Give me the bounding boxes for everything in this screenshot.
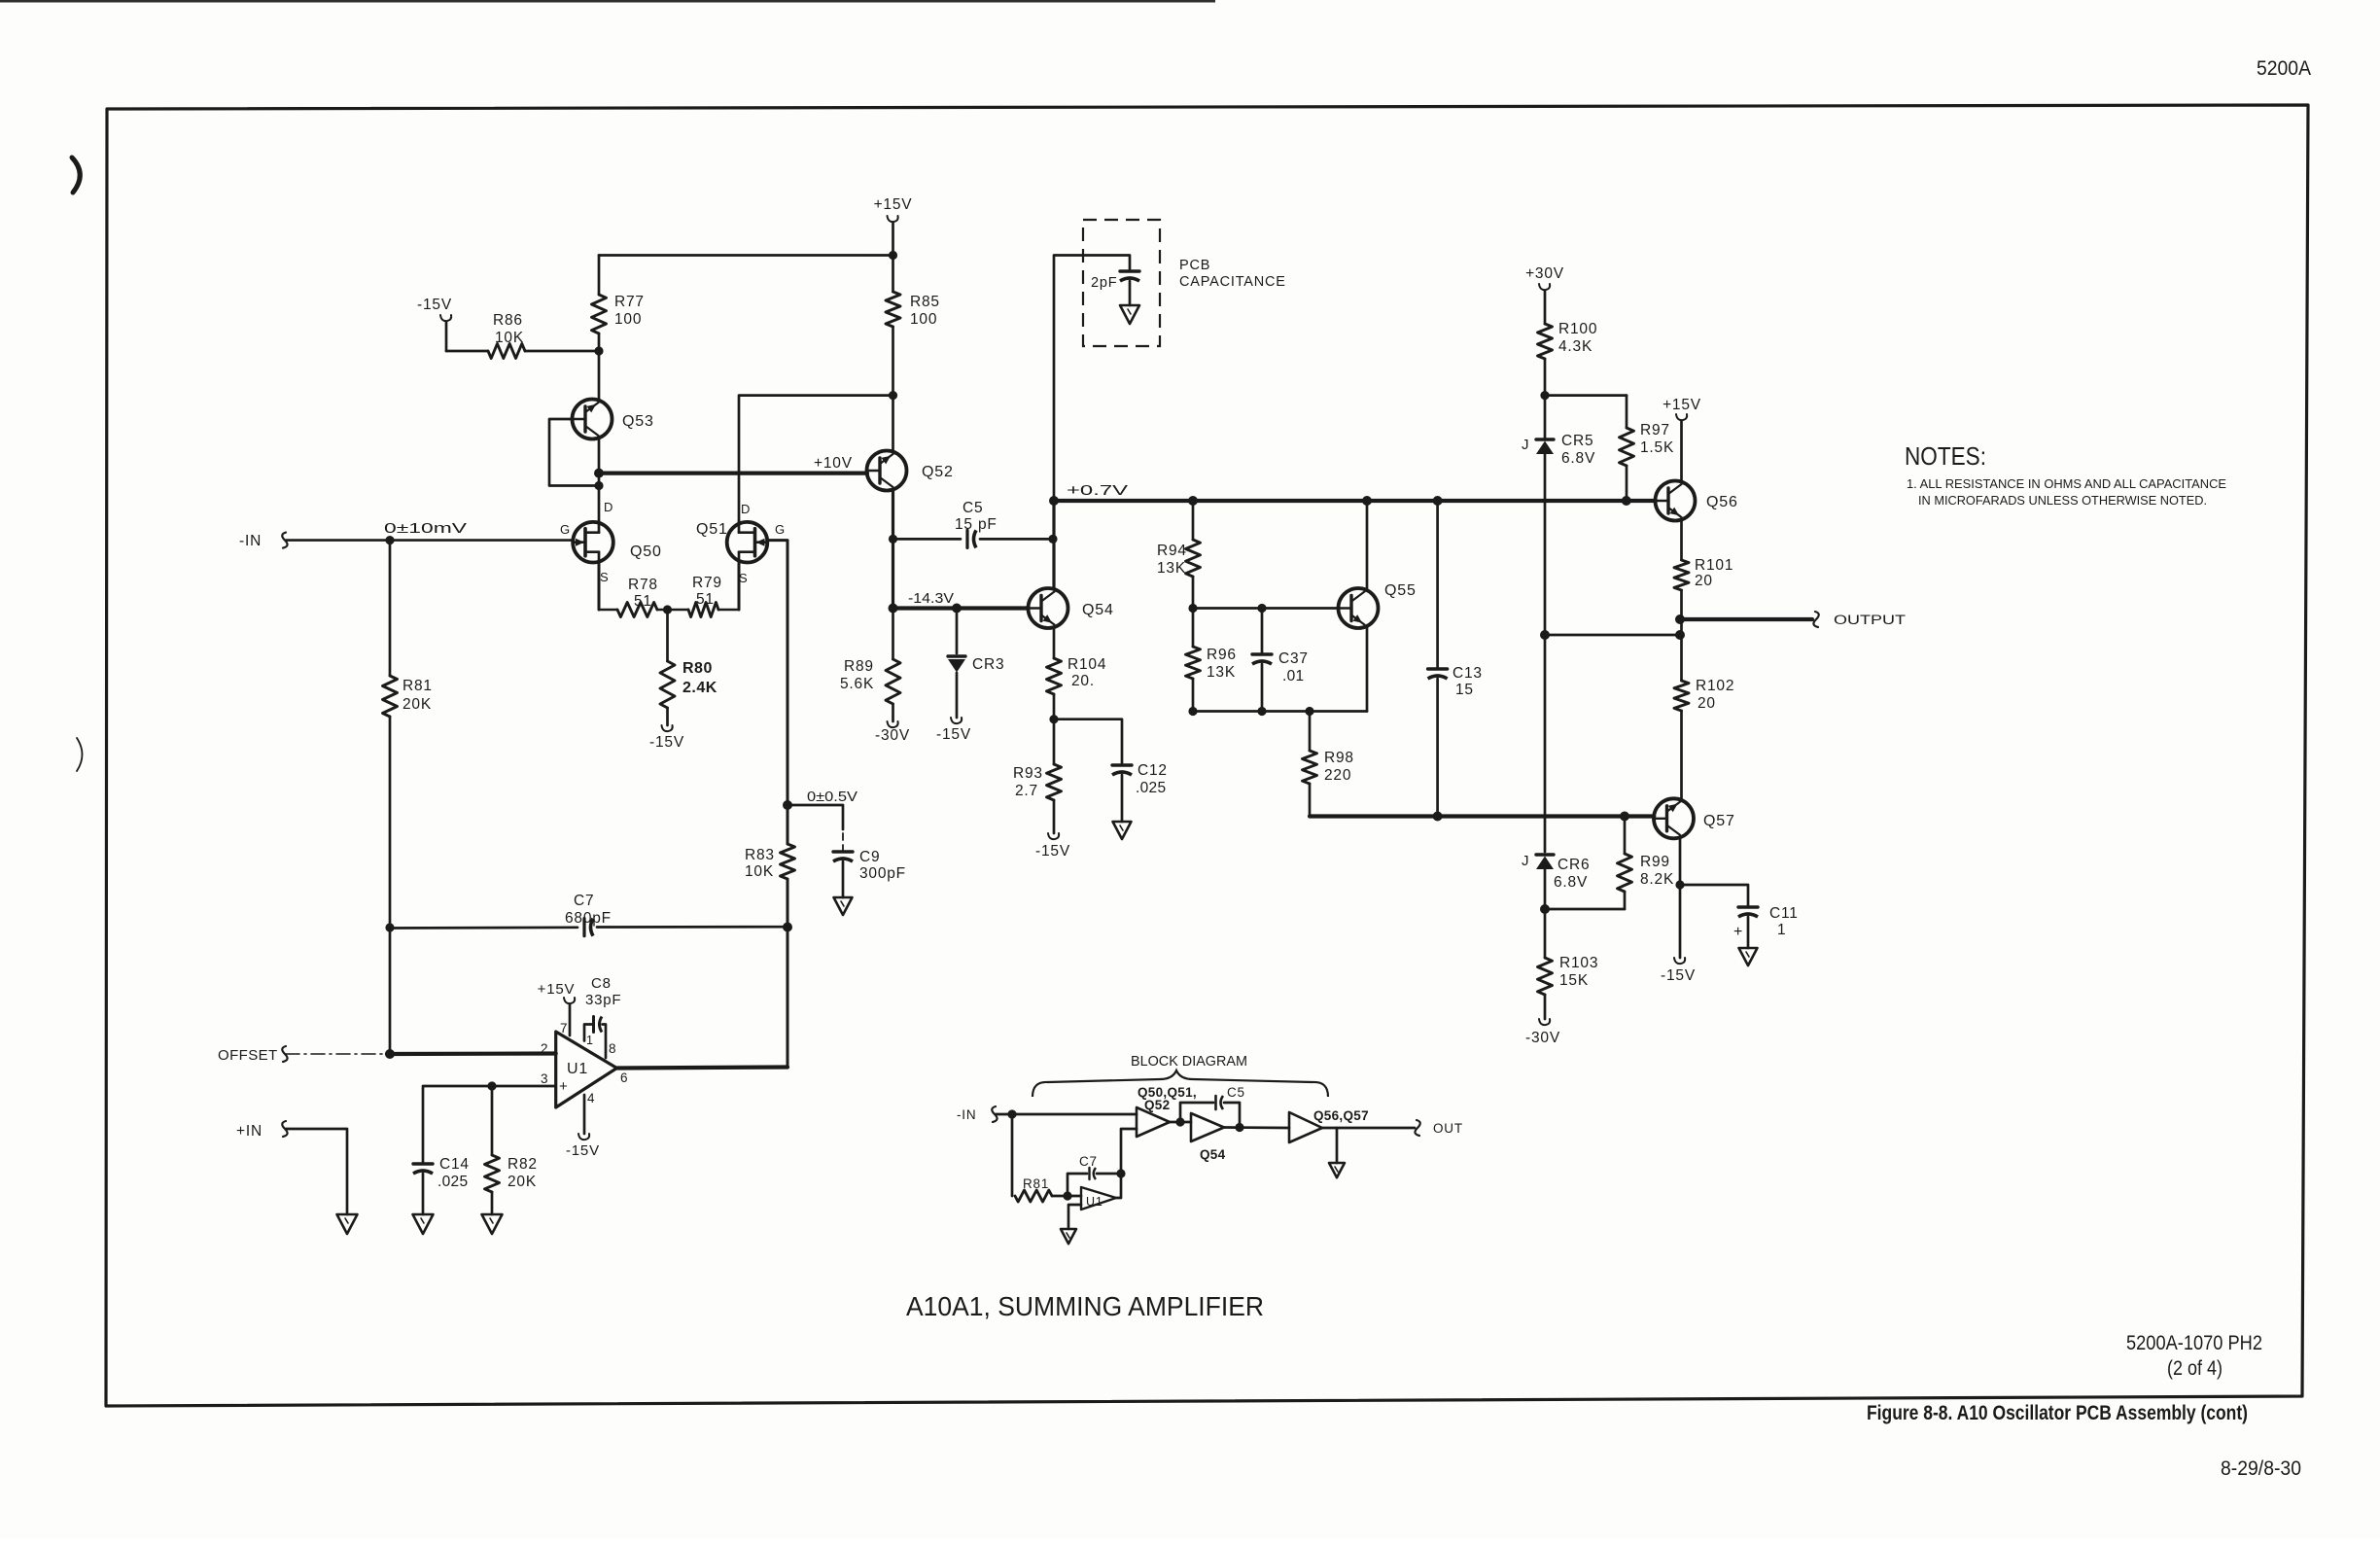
wire Q51 drain to top node	[739, 396, 893, 522]
svg-text:+: +	[1733, 924, 1743, 940]
transistor Q52	[867, 451, 907, 491]
diode CR3	[956, 609, 959, 654]
svg-text:2pF: 2pF	[1091, 275, 1117, 291]
svg-text:R99: R99	[1640, 854, 1670, 870]
wire Q51 source down	[738, 563, 741, 610]
svg-text:100: 100	[910, 311, 937, 328]
wire R85 to Q52 collector node	[892, 327, 894, 451]
svg-text:Q52: Q52	[1144, 1098, 1170, 1112]
svg-text:7: 7	[560, 1021, 568, 1035]
svg-text:-15V: -15V	[1661, 967, 1696, 984]
wire +IN	[286, 1129, 347, 1214]
svg-text:OUT: OUT	[1433, 1121, 1463, 1136]
wire Q50 source down	[598, 563, 601, 610]
wire to C9	[787, 805, 843, 829]
block diagram brace	[1032, 1070, 1328, 1097]
svg-text:1: 1	[1777, 922, 1786, 938]
resistor R77	[592, 295, 607, 333]
resistor R85	[886, 292, 900, 327]
svg-text:+: +	[559, 1078, 569, 1095]
svg-text:10K: 10K	[745, 863, 774, 880]
op-amp U1	[556, 1032, 617, 1107]
svg-text:4.3K: 4.3K	[1558, 338, 1592, 355]
svg-text:+15V: +15V	[1662, 397, 1701, 413]
svg-text:0±0.5V: 0±0.5V	[807, 790, 857, 805]
wire OFFSET to U1 pin2	[387, 1051, 556, 1056]
svg-text:R101: R101	[1695, 557, 1733, 574]
power terminal -15V (R80)	[666, 708, 669, 725]
svg-text:R104: R104	[1067, 656, 1106, 673]
svg-text:.025: .025	[437, 1174, 468, 1190]
svg-text:2: 2	[541, 1041, 548, 1056]
capacitor C5 wire right	[980, 538, 1053, 541]
transistor Q53	[573, 400, 612, 439]
resistor R85 branch wire	[892, 256, 894, 293]
svg-text:1: 1	[586, 1034, 594, 1047]
svg-text:CAPACITANCE: CAPACITANCE	[1179, 274, 1286, 290]
capacitor C13 wire top	[1436, 501, 1439, 668]
svg-text:220: 220	[1324, 767, 1351, 784]
wire -IN to Q50 gate	[286, 539, 573, 542]
svg-text:680pF: 680pF	[565, 910, 612, 927]
svg-text:Q56: Q56	[1706, 494, 1738, 510]
wire R98 to Q57 base bus	[1309, 784, 1312, 817]
resistor R81	[389, 541, 392, 676]
svg-text:33pF: 33pF	[585, 992, 621, 1008]
svg-text:-15V: -15V	[1035, 843, 1070, 860]
wire CR6 node to R99	[1545, 908, 1625, 911]
wire U1 output	[617, 1068, 788, 1069]
wire Q51 gate to feedback column	[767, 541, 787, 805]
registration paren mark mid-left	[77, 738, 83, 771]
svg-text:IN MICROFARADS UNLESS OTHERWIS: IN MICROFARADS UNLESS OTHERWISE NOTED.	[1918, 493, 2207, 508]
wire C11 to ground	[1747, 917, 1750, 948]
capacitor C5 wire left	[893, 538, 962, 541]
svg-text:S: S	[600, 570, 609, 584]
wire OFFSET dash-dot	[286, 1053, 387, 1055]
svg-text:Q50: Q50	[630, 544, 662, 560]
svg-text:-IN: -IN	[957, 1107, 976, 1122]
jfet Q51	[727, 522, 768, 563]
block amp Q54	[1191, 1113, 1224, 1141]
net +0.7V bus	[1054, 499, 1656, 503]
resistor R94	[1192, 501, 1195, 540]
resistor R96	[1186, 647, 1201, 679]
svg-text:100: 100	[614, 311, 642, 328]
svg-text:R79: R79	[692, 575, 722, 591]
block amp Q56 Q57	[1289, 1112, 1322, 1142]
ground (block out)	[1329, 1163, 1345, 1177]
block ground stub	[1336, 1128, 1339, 1163]
capacitor C8	[592, 1017, 595, 1033]
transistor Q54	[1029, 588, 1068, 628]
ground (C11)	[1739, 948, 1758, 965]
svg-text:8.2K: 8.2K	[1640, 871, 1674, 888]
wire Q55 base bus	[1193, 607, 1339, 610]
svg-text:CR6: CR6	[1557, 857, 1590, 873]
wire R101 to output node	[1680, 590, 1683, 681]
wire C12 to ground	[1121, 775, 1124, 822]
resistor R93	[1047, 764, 1062, 800]
wire Q53 emitter down	[598, 438, 601, 522]
svg-text:R102: R102	[1696, 678, 1734, 694]
svg-text:R81: R81	[402, 678, 433, 694]
power terminal -30V (R103)	[1544, 995, 1547, 1019]
svg-text:C14: C14	[439, 1156, 470, 1173]
capacitor C12	[1112, 763, 1132, 766]
svg-text:Q57: Q57	[1703, 813, 1735, 829]
scan edge artifact top	[0, 0, 1215, 3]
resistor R86	[488, 344, 525, 359]
svg-text:Figure 8-8. A10 Oscillator PCB: Figure 8-8. A10 Oscillator PCB Assembly …	[1867, 1402, 2248, 1424]
capacitor C9	[833, 850, 853, 853]
capacitor C11	[1738, 905, 1758, 908]
svg-text:1. ALL RESISTANCE IN OHMS AND: 1. ALL RESISTANCE IN OHMS AND ALL CAPACI…	[1907, 476, 2226, 491]
wire top bus R77 to R85	[599, 254, 893, 257]
capacitor C13 wire bottom	[1436, 679, 1439, 817]
wire R86 left	[446, 350, 488, 353]
power terminal -15V (U1 pin4)	[583, 1095, 586, 1134]
capacitor C8 loop	[584, 1025, 592, 1041]
svg-text:C12: C12	[1137, 762, 1168, 779]
wire Q54 collector	[1052, 501, 1055, 589]
block wire amp1 to amp2	[1170, 1121, 1191, 1124]
wire Q55 emitter bottom bus	[1193, 710, 1367, 713]
svg-text:300pF: 300pF	[859, 865, 906, 882]
svg-text:-14.3V: -14.3V	[908, 591, 954, 607]
svg-text:OUTPUT: OUTPUT	[1834, 613, 1906, 627]
svg-text:Q54: Q54	[1082, 602, 1114, 618]
transistor Q56	[1656, 481, 1696, 521]
svg-text:15 pF: 15 pF	[955, 516, 997, 533]
wire R82 to ground	[491, 1192, 494, 1214]
svg-text:+IN: +IN	[236, 1123, 262, 1140]
capacitor C7 wire right	[597, 926, 787, 929]
svg-text:8-29/8-30: 8-29/8-30	[2221, 1457, 2301, 1480]
block wire U1 plus input	[1068, 1205, 1081, 1229]
resistor R83	[787, 805, 789, 844]
svg-text:5200A-1070 PH2: 5200A-1070 PH2	[2126, 1332, 2262, 1354]
svg-text:2.7: 2.7	[1015, 783, 1038, 799]
svg-text:Q54: Q54	[1200, 1147, 1226, 1162]
svg-text:-15V: -15V	[417, 297, 452, 313]
resistor R98	[1309, 712, 1312, 752]
power terminal -15V (CR3)	[956, 673, 959, 718]
svg-text:51: 51	[634, 593, 652, 610]
wire CR5/CR6 node to output node	[1545, 634, 1680, 637]
wire CR6 to R103	[1544, 869, 1547, 958]
transistor Q55	[1339, 588, 1379, 628]
ground (block U1)	[1061, 1229, 1076, 1244]
capacitor C5	[965, 530, 968, 547]
svg-text:J: J	[1522, 437, 1529, 453]
svg-text:C13: C13	[1452, 665, 1483, 682]
resistor R99	[1624, 817, 1627, 855]
wire R77 branch	[598, 256, 601, 296]
resistor R82	[491, 1086, 494, 1155]
svg-text:R98: R98	[1324, 750, 1354, 766]
svg-text:R81: R81	[1023, 1176, 1049, 1191]
svg-text:Q53: Q53	[622, 413, 654, 430]
wire U1 pin7	[569, 1004, 572, 1035]
wire R99 bottom	[1624, 892, 1627, 909]
wire Q56 collector	[1680, 421, 1683, 481]
power terminal -15V (R93)	[1053, 800, 1056, 833]
wire R81 down to offset node	[389, 717, 392, 1054]
svg-text:R100: R100	[1558, 321, 1597, 337]
wire CR5 to output-node tie	[1544, 454, 1547, 852]
svg-text:2.4K: 2.4K	[682, 680, 717, 696]
resistor R79	[688, 603, 718, 617]
svg-text:+15V: +15V	[538, 981, 576, 998]
svg-text:20K: 20K	[507, 1174, 537, 1190]
wire R86 to R77 node	[525, 350, 599, 353]
wire pcb cap to ground	[1129, 281, 1132, 305]
svg-text:D: D	[604, 500, 613, 514]
block amp Q50 Q51 Q52	[1137, 1107, 1170, 1137]
svg-text:13K: 13K	[1207, 664, 1236, 681]
svg-text:+30V: +30V	[1525, 265, 1564, 282]
svg-text:R83: R83	[745, 847, 775, 863]
svg-text:6.8V: 6.8V	[1561, 450, 1595, 467]
capacitor 2pF (pcb)	[1120, 269, 1139, 272]
svg-text:15K: 15K	[1559, 972, 1589, 989]
resistor R103	[1538, 958, 1553, 995]
ground (pcb cap)	[1120, 305, 1139, 324]
capacitor C7 wire left	[390, 926, 577, 929]
svg-text:-30V: -30V	[1525, 1030, 1560, 1046]
ground (+IN)	[337, 1214, 358, 1234]
block wire amp2 to amp3	[1224, 1126, 1289, 1129]
border frame	[106, 105, 2308, 1406]
ground (C12)	[1113, 822, 1132, 839]
wire PCB capacitance column	[1054, 256, 1130, 502]
wire R94 to Q55 base node	[1192, 577, 1195, 647]
net Q57 base bus	[1310, 814, 1654, 818]
svg-text:0±10mV: 0±10mV	[384, 521, 468, 537]
svg-text:10K: 10K	[495, 330, 524, 346]
resistor R97	[1626, 396, 1628, 428]
capacitor C37	[1252, 652, 1272, 655]
wire U1 pin3	[490, 1085, 556, 1088]
svg-text:+15V: +15V	[874, 196, 913, 213]
svg-text:6.8V: 6.8V	[1554, 874, 1588, 891]
net +10V bus	[599, 472, 867, 475]
registration paren mark top-left	[72, 158, 80, 193]
svg-text:20: 20	[1697, 695, 1716, 712]
svg-text:G: G	[560, 522, 571, 537]
svg-text:CR5: CR5	[1561, 433, 1593, 449]
svg-text:15: 15	[1455, 682, 1474, 698]
svg-text:R94: R94	[1157, 543, 1187, 559]
svg-text:(2 of 4): (2 of 4)	[2167, 1357, 2222, 1380]
capacitor C37 wire	[1261, 609, 1264, 654]
svg-text:D: D	[741, 502, 751, 516]
jfet Q50	[573, 522, 613, 563]
power terminal -30V (R89)	[892, 704, 894, 721]
svg-text:A10A1, SUMMING AMPLIFIER: A10A1, SUMMING AMPLIFIER	[906, 1291, 1264, 1321]
wire R77 to Q53	[598, 333, 601, 401]
svg-text:R89: R89	[844, 658, 874, 675]
resistor R101	[1674, 560, 1689, 590]
svg-text:R85: R85	[910, 294, 940, 310]
wire R97 to +0.7V bus	[1626, 466, 1628, 501]
wire pin3 to C14	[423, 1086, 492, 1163]
svg-text:13K: 13K	[1157, 560, 1186, 577]
resistor R80	[666, 610, 669, 661]
svg-text:C7: C7	[574, 893, 594, 909]
svg-text:5.6K: 5.6K	[840, 676, 874, 692]
svg-text:C37: C37	[1278, 650, 1309, 667]
pcb capacitance box (dashed)	[1083, 220, 1160, 346]
power terminal -15V (Q57)	[1674, 958, 1685, 964]
wire Q55 emitter	[1366, 628, 1369, 712]
ground (R82)	[482, 1214, 503, 1234]
ground (C14)	[413, 1214, 434, 1234]
svg-text:R77: R77	[614, 294, 645, 310]
svg-text:Q55: Q55	[1384, 582, 1417, 599]
svg-text:U1: U1	[1086, 1195, 1103, 1209]
resistor R102	[1674, 681, 1689, 711]
wire to C12	[1054, 719, 1122, 764]
svg-text:-30V: -30V	[875, 727, 910, 744]
svg-text:R96: R96	[1207, 647, 1237, 663]
svg-text:+10V: +10V	[814, 455, 853, 472]
resistor R100	[1538, 324, 1553, 359]
svg-text:U1: U1	[567, 1061, 588, 1077]
svg-text:51: 51	[696, 591, 715, 608]
wire to R97	[1545, 394, 1627, 397]
block resistor R81	[1015, 1190, 1052, 1202]
svg-text:R93: R93	[1013, 765, 1043, 782]
wire Q57 emitter	[1679, 838, 1682, 959]
svg-text:.025: .025	[1136, 780, 1166, 796]
svg-text:NOTES:: NOTES:	[1905, 441, 1986, 471]
svg-text:C8: C8	[591, 975, 612, 992]
wire R83 to op-amp output node	[787, 879, 789, 1067]
svg-text:3: 3	[541, 1071, 548, 1086]
capacitor C7	[582, 919, 585, 936]
svg-text:J: J	[1522, 853, 1529, 869]
svg-text:-15V: -15V	[649, 734, 684, 751]
capacitor C13	[1428, 667, 1448, 670]
transistor Q57	[1654, 798, 1694, 838]
svg-text:R80: R80	[682, 660, 713, 677]
svg-text:20K: 20K	[402, 696, 432, 713]
svg-text:R97: R97	[1640, 422, 1670, 439]
block amp U1	[1081, 1187, 1116, 1210]
svg-text:G: G	[775, 522, 786, 537]
svg-text:C7: C7	[1079, 1154, 1098, 1169]
wire R100 to CR5 node	[1544, 359, 1547, 438]
svg-text:.01: .01	[1282, 668, 1304, 684]
wire C9 to ground	[842, 861, 845, 897]
wire Q52 emitter down	[892, 490, 894, 609]
wire Q55 collector	[1366, 501, 1369, 589]
svg-text:R86: R86	[493, 312, 523, 329]
block wire to R81	[1011, 1114, 1014, 1196]
svg-text:8: 8	[609, 1041, 616, 1056]
svg-text:Q52: Q52	[922, 464, 954, 480]
svg-text:-15V: -15V	[566, 1142, 600, 1159]
block output terminal OUT	[1415, 1120, 1419, 1136]
svg-text:Q51: Q51	[696, 521, 728, 538]
svg-text:R82: R82	[507, 1156, 538, 1173]
net -14.3V bus	[893, 606, 1029, 610]
block wire OUT	[1322, 1127, 1415, 1130]
wire Q54 emitter	[1053, 628, 1056, 659]
wire Q57 emitter to C11	[1680, 885, 1748, 906]
ground (C9)	[834, 897, 853, 915]
output terminal OUTPUT	[1680, 617, 1812, 621]
svg-text:PCB: PCB	[1179, 258, 1210, 273]
svg-text:Q56,Q57: Q56,Q57	[1313, 1108, 1369, 1123]
resistor R104	[1047, 658, 1062, 694]
svg-text:OFFSET: OFFSET	[218, 1047, 278, 1064]
svg-text:C11: C11	[1769, 905, 1799, 922]
svg-text:6: 6	[620, 1070, 628, 1085]
block capacitor C7 loop	[1067, 1174, 1087, 1196]
svg-text:20: 20	[1695, 573, 1713, 589]
block wire R81 to U1	[1052, 1195, 1081, 1198]
wire Q56 emitter	[1680, 520, 1683, 561]
svg-text:-IN: -IN	[239, 533, 262, 549]
wire C14 to ground	[422, 1174, 425, 1214]
wire R104 to R93	[1053, 694, 1056, 764]
svg-text:20.: 20.	[1071, 673, 1095, 689]
svg-text:C5: C5	[1227, 1085, 1245, 1100]
svg-text:4: 4	[587, 1091, 595, 1105]
block wire U1 out to amp1 input	[1116, 1129, 1137, 1198]
svg-text:CR3: CR3	[972, 656, 1004, 673]
svg-text:C9: C9	[859, 849, 880, 865]
svg-text:R103: R103	[1559, 955, 1598, 971]
svg-text:5200A: 5200A	[2257, 57, 2311, 80]
svg-text:BLOCK DIAGRAM: BLOCK DIAGRAM	[1131, 1053, 1247, 1070]
wire R102 to Q57 collector	[1680, 711, 1683, 799]
block wire -IN to amp1	[996, 1113, 1137, 1116]
block capacitor C5 loop	[1180, 1103, 1213, 1122]
svg-text:+0.7V: +0.7V	[1067, 483, 1129, 499]
wire Q53 base loop	[549, 419, 595, 486]
svg-text:-15V: -15V	[936, 726, 971, 743]
svg-text:1.5K: 1.5K	[1640, 439, 1674, 456]
svg-text:C5: C5	[962, 500, 983, 516]
resistor R78	[599, 609, 617, 612]
resistor R89	[892, 609, 894, 660]
capacitor C14	[413, 1162, 433, 1165]
svg-text:R78: R78	[628, 577, 658, 593]
